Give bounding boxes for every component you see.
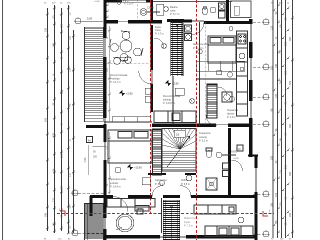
living room right wall x151 (151, 25, 153, 70)
dashed vertical guide x205 (204, 22, 206, 126)
kitchen counter along right wall (237, 31, 248, 116)
dashed vertical guide x137 top (137, 0, 139, 20)
right exterior wall seg2 (249, 42, 252, 58)
small boxed marker M (87, 137, 93, 143)
radiator boxes against living wall (145, 88, 151, 94)
svg-text:60/60: 60/60 (231, 151, 237, 153)
svg-text:210: 210 (69, 172, 72, 177)
svg-text:P: 7,3 m: P: 7,3 m (184, 225, 193, 228)
axis bubble left bottom (72, 230, 78, 236)
svg-text:305: 305 (289, 171, 292, 176)
party wall x196 thin (199, 22, 201, 126)
svg-text:210: 210 (53, 197, 56, 202)
svg-text:250: 250 (271, 155, 274, 160)
svg-text:200: 200 (93, 156, 98, 159)
svg-text:P: 9,5 m: P: 9,5 m (181, 183, 190, 186)
mid horizontal thick wall right (228, 124, 251, 127)
mid wall stub at left exterior (86, 125, 106, 128)
red section line vertical B (196, 0, 198, 240)
living room level marker (119, 90, 125, 96)
svg-text:120: 120 (275, 93, 278, 98)
door lines in right wall of living room (150, 70, 152, 84)
svg-text:+2,95: +2,95 (126, 91, 133, 95)
right exterior wall window1 (249, 24, 251, 42)
red section marker left (60, 211, 65, 216)
lower staircase flight to bottom edge (163, 200, 179, 240)
left wall deck-door opening (103, 38, 105, 57)
upper horizontal wall band y21 mid part (128, 20, 162, 23)
svg-text:onica: onica (155, 30, 161, 32)
door arc lower-left bath (113, 197, 128, 212)
bathroom lower-right fixtures (206, 148, 236, 190)
svg-text:P: 5,7 m: P: 5,7 m (170, 13, 179, 16)
left exterior wall upper segment (104, 0, 107, 38)
top-right terrace outline (231, 1, 252, 18)
svg-text:jednokr.: jednokr. (109, 182, 119, 185)
svg-text:120: 120 (280, 169, 283, 174)
bed lower-left bedroom (108, 130, 152, 163)
red section line vertical A (150, 0, 152, 213)
svg-text:250: 250 (285, 41, 288, 46)
svg-text:P: 3,7 m: P: 3,7 m (155, 33, 164, 35)
desk in radna soba (157, 4, 164, 15)
washer unit2 bath (222, 92, 232, 102)
svg-text:P: 7,2 m: P: 7,2 m (120, 0, 129, 3)
divider line right of counter (161, 198, 163, 233)
svg-text:302: 302 (53, 42, 56, 47)
left exterior wall mid segment 2 (104, 124, 107, 142)
svg-text:305: 305 (45, 212, 48, 217)
svg-text:185: 185 (271, 202, 274, 207)
svg-text:188: 188 (275, 63, 278, 68)
svg-text:290: 290 (289, 212, 292, 217)
svg-text:302: 302 (289, 123, 292, 128)
svg-text:120: 120 (61, 23, 64, 28)
svg-text:186: 186 (280, 137, 283, 142)
right exterior wall window2 (249, 58, 251, 80)
wardrobe box garderoba (142, 178, 150, 185)
upper horizontal wall band right of stair (204, 21, 251, 24)
svg-text:Spavaca soba: Spavaca soba (193, 43, 209, 46)
left wall window opening mid (103, 142, 105, 160)
svg-text:I: I (269, 209, 270, 213)
svg-text:kupat.: kupat. (184, 221, 191, 224)
mini dim chain inside lower-left wall (107, 132, 111, 194)
svg-text:+10,90: +10,90 (134, 166, 142, 169)
mid wall door gap (216, 124, 228, 126)
top-right bathroom fixtures (202, 3, 225, 18)
svg-text:Mokra čvor: Mokra čvor (184, 217, 196, 220)
svg-text:soba: soba (170, 9, 176, 12)
laundry boxes next to upper stair (185, 25, 192, 41)
unit2 level marker (165, 80, 171, 86)
wall segment right of stair y20 (184, 20, 192, 23)
svg-text:+3,05: +3,05 (94, 1, 100, 3)
mini dim chain inside left wall (107, 26, 111, 121)
right dimension chain numbers (271, 11, 293, 225)
svg-text:250: 250 (69, 35, 72, 40)
central staircase with winders (162, 129, 196, 172)
top-left washbasin with leader (140, 9, 160, 16)
svg-text:Kupaonica: Kupaonica (199, 132, 211, 135)
shower diagonals (206, 178, 217, 190)
bedroom level marker (127, 164, 133, 170)
door arc hallway left (152, 186, 163, 197)
svg-text:260: 260 (280, 79, 283, 84)
living room right wall lower part (151, 84, 153, 112)
partition wall unit2 y79 (196, 78, 237, 80)
room divider wall y196 gaps and segs (128, 195, 152, 198)
svg-text:+kuhinja: +kuhinja (110, 77, 120, 80)
bottom exterior wall (104, 235, 160, 238)
small table centre (175, 88, 184, 95)
svg-text:545: 545 (289, 80, 292, 85)
page frame border line at left edge (2, 0, 4, 240)
top-left symbol circle with leader (117, 0, 121, 4)
left exterior wall mid segment (104, 57, 107, 118)
svg-text:P: 4,4 m: P: 4,4 m (227, 117, 236, 119)
svg-text:+0,95: +0,95 (233, 158, 239, 160)
door arc top wall gap unit2 (192, 23, 204, 35)
svg-text:130: 130 (285, 70, 288, 75)
left wall small gap (103, 118, 105, 124)
door arc mid wall (206, 115, 217, 126)
left exterior wall bottom segment (104, 229, 107, 240)
svg-text:120: 120 (61, 185, 64, 190)
svg-text:P: 14,4 m: P: 14,4 m (110, 186, 121, 189)
bathroom partition wall top-right (226, 0, 229, 21)
bathroom wall x229 lower (228, 128, 231, 196)
small wall stub left of bottom room (90, 196, 93, 216)
svg-text:I: I (59, 208, 60, 212)
svg-text:120: 120 (271, 25, 274, 30)
stair-top wall cap (167, 19, 184, 22)
upper horizontal wall band y21 left part (104, 20, 118, 23)
axis bubble right row (253, 19, 270, 237)
small circle near red line bedroom2 (198, 49, 203, 54)
svg-text:120/60: 120/60 (147, 7, 155, 9)
svg-text:djeteta: djeteta (227, 112, 235, 115)
left dimension chain numbers (45, 12, 72, 228)
svg-text:120: 120 (280, 49, 283, 54)
cabinet row lower centre with 240 label (194, 205, 236, 214)
svg-text:250: 250 (53, 132, 56, 137)
right exterior wall seg3 (249, 80, 252, 101)
cabinet row above bedroom wall (112, 117, 150, 122)
small circles lower bedroom (115, 167, 121, 173)
tiny axis circle in bedroom2 (229, 27, 233, 31)
top exterior wall segment left (104, 0, 122, 2)
axis bubble left mid (72, 190, 78, 196)
door arc terrace right wall (232, 160, 243, 171)
bed upper-right bedroom (208, 36, 236, 63)
left dimension chain lines (46, 5, 75, 235)
door arc living room right wall (139, 71, 152, 84)
mini ticks along top-left wall (106, 3, 109, 18)
wardrobe hatched strip unit2 x207 (207, 84, 217, 118)
top wall window opening (122, 0, 146, 2)
svg-text:vešeraj: vešeraj (199, 136, 207, 139)
door lines top wall gap (192, 20, 204, 22)
svg-text:200: 200 (45, 27, 48, 32)
sink on partition (227, 72, 232, 77)
axis bubble top-left with leader (75, 18, 81, 24)
svg-text:393: 393 (289, 36, 292, 41)
door arc hallway right (180, 186, 191, 197)
svg-text:5,06: 5,06 (87, 16, 93, 20)
bedroom top thin wall line (104, 121, 152, 123)
svg-text:210: 210 (275, 192, 278, 197)
svg-text:210: 210 (285, 164, 288, 169)
right exterior wall window3 (249, 101, 251, 118)
svg-text:P: 11,5 m: P: 11,5 m (193, 47, 204, 50)
red section marker right (263, 211, 268, 216)
kitchen row at bottom right (205, 226, 253, 237)
svg-text:260: 260 (61, 89, 64, 94)
top wall corner piece (146, 0, 153, 2)
washbasin unit2 (229, 96, 234, 101)
dining table round with four chairs (110, 31, 144, 62)
svg-text:545: 545 (45, 117, 48, 122)
door arc laundry room (154, 38, 164, 48)
vanity counter lower-left room (107, 199, 155, 215)
room divider wall y196 left (90, 195, 113, 198)
step wall at right y155 (248, 154, 258, 156)
top edge thin line right part (153, 1, 232, 3)
sofa/cabinet row above mid wall (154, 111, 196, 123)
svg-text:P: 5,1 m: P: 5,1 m (155, 183, 164, 186)
shower circle lower bathroom (116, 214, 134, 232)
red section line horizontal I-I (57, 213, 274, 215)
right exterior wall seg4 (249, 118, 252, 157)
door arc wardrobe wall (218, 87, 227, 96)
bottom wall window lines (160, 235, 186, 237)
svg-text:kuhinja: kuhinja (163, 98, 172, 101)
left exterior wall lower segment (104, 160, 107, 218)
svg-text:302: 302 (271, 65, 274, 70)
mid horizontal thick wall centre (152, 124, 216, 127)
circled number living room unit2 (190, 99, 195, 104)
stairwell edge line x173 (172, 76, 174, 125)
upper horizontal wall band door gap lines (118, 21, 128, 23)
sofa in living room left (113, 57, 131, 65)
dresser row at bed foot unit2 (197, 61, 245, 71)
lower right exterior wall with window (255, 155, 258, 168)
upper staircase straight flight (171, 21, 183, 76)
left wall window opening bottom (103, 218, 105, 229)
svg-text:P: 14,7 m: P: 14,7 m (110, 81, 121, 84)
lower hall wall y174 (148, 173, 166, 175)
right exterior wall top corner (249, 19, 252, 24)
svg-text:16: 16 (176, 132, 180, 136)
svg-text:P: 3,2 m: P: 3,2 m (199, 140, 208, 143)
small circle bottom right room (238, 217, 244, 223)
wardrobe wall x152-162 hatched (upper bedroom right) (153, 129, 162, 175)
svg-text:Garderoba: Garderoba (155, 179, 167, 182)
right dimension chain lines (272, 0, 294, 238)
svg-text:Soba: Soba (181, 179, 187, 182)
svg-text:186: 186 (61, 153, 64, 158)
svg-text:130: 130 (69, 67, 72, 72)
dashed guide line across living room (106, 63, 151, 65)
boxed marker D terrace (237, 145, 243, 151)
svg-text:Kupa-: Kupa- (155, 27, 161, 29)
exterior deck / balcony strip upper-left (85, 27, 104, 122)
svg-text:Kupaonica: Kupaonica (227, 110, 239, 112)
svg-text:4,95: 4,95 (84, 157, 87, 162)
svg-text:Spavaca soba: Spavaca soba (110, 178, 126, 181)
exterior stair strip lower-left (85, 203, 104, 240)
